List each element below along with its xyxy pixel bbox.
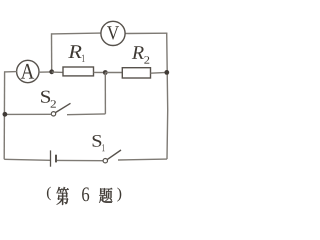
ammeter A: [17, 60, 39, 82]
wire: node A to R1 left terminal: [52, 71, 64, 73]
resistor R2: [122, 68, 150, 78]
switch S2 lever (open): [55, 103, 70, 112]
node B junction dot between R1 and R2: [103, 70, 108, 75]
wire: S2 branch riser from node B down: [104, 73, 106, 114]
wire: top-left segment from riser corner to voltmeter: [52, 32, 101, 35]
wire: top-right segment from voltmeter to top-right corner: [126, 32, 168, 34]
node C junction dot on right vertical: [164, 70, 169, 75]
caption glyph 题: [99, 188, 112, 203]
wire: battery to S1 pivot: [57, 159, 103, 161]
wire: node B to R2 left terminal: [105, 72, 122, 74]
voltmeter V: [101, 21, 125, 45]
caption opening parenthesis: [47, 187, 51, 201]
label S1: [93, 135, 105, 151]
label R1: [68, 45, 84, 62]
resistor R1: [63, 67, 94, 76]
wire: R2 right terminal to node C: [151, 71, 167, 74]
switch S2 pivot: [51, 112, 55, 116]
wire: voltmeter riser down to node A: [51, 33, 53, 72]
node D junction dot on left vertical: [3, 112, 8, 117]
node A junction dot left of R1: [49, 69, 54, 74]
wire: right vertical side: [167, 33, 168, 160]
caption glyph 第: [57, 187, 69, 205]
wire: S2 branch right horizontal: [67, 113, 105, 116]
caption closing parenthesis: [117, 188, 121, 202]
wire: left vertical side: [3, 71, 5, 159]
caption numeral 6: [82, 187, 89, 201]
wire: S2 branch left horizontal: [5, 113, 51, 115]
wire: bottom-right segment to corner: [118, 158, 167, 161]
wire: ammeter right lead to node A: [39, 71, 52, 73]
switch S1 pivot: [103, 159, 107, 163]
wire: ammeter left lead to left vertical: [4, 71, 17, 73]
switch S1 lever (open): [107, 150, 121, 160]
wire: bottom-left segment to battery: [4, 159, 50, 160]
battery positive plate (long): [50, 150, 52, 166]
battery negative plate (short): [55, 155, 57, 163]
wire: R1 right terminal to node B: [94, 71, 106, 73]
label S2: [41, 91, 56, 108]
label R2: [132, 46, 150, 63]
